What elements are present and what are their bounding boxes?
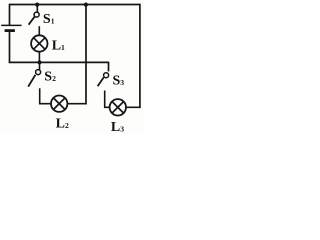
node: junction dot of riser on top bus [84, 3, 88, 7]
node: junction dot on middle bus above S2 [37, 60, 41, 64]
label L1 [52, 39, 65, 54]
wire: lamp L3 right lead [126, 106, 141, 108]
wire: right bus down from top-right corner [139, 4, 141, 108]
lamp L3 [110, 99, 126, 115]
lamp L2 [51, 96, 67, 112]
label S3 [113, 74, 125, 89]
switch S3 (open) [98, 73, 109, 87]
wire: S1 lower terminal lead to lamp L1 [38, 26, 40, 35]
wire: riser from L2 up to top bus (crosses middle bus) [85, 5, 87, 105]
label S1 [43, 12, 55, 27]
wire: middle bus [9, 61, 109, 63]
wire: left lead from top-left corner to battery [9, 4, 11, 25]
node: junction dot of S1 branch on top bus [35, 3, 39, 7]
wire: battery negative lead down to middle bus [9, 31, 11, 63]
label S2 [44, 70, 56, 85]
switch S1 (open) [29, 5, 39, 25]
wire: S2 lower terminal down then right to lamp L2 [40, 88, 52, 103]
wire: S3 lower terminal down then right to lamp L3 [105, 91, 111, 108]
battery cell (long positive plate, short thick negative plate) [1, 25, 21, 30]
wire: middle bus bend down to switch S3 [108, 62, 110, 72]
label L2 [56, 117, 69, 132]
lamp L1 [31, 35, 47, 51]
wire: lamp L1 bottom lead to middle bus [38, 52, 40, 63]
wire: top bus [10, 4, 141, 6]
switch S2 (open) [28, 62, 40, 86]
wire: lamp L2 right lead to riser [67, 103, 86, 105]
label L3 [111, 120, 124, 135]
